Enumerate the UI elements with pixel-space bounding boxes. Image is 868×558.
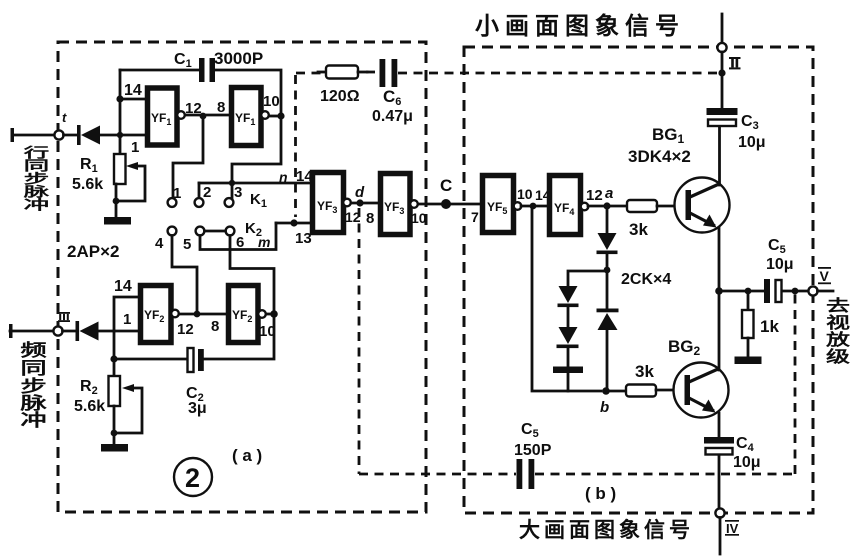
label II bbox=[729, 57, 741, 69]
svg-text:3k: 3k bbox=[635, 362, 654, 381]
BG2 base bar bbox=[685, 375, 691, 405]
wire output run bbox=[719, 290, 764, 293]
label to video amplifier (vertical, right) bbox=[825, 296, 851, 366]
svg-text:IV: IV bbox=[726, 521, 739, 536]
wire node V out bbox=[818, 290, 834, 293]
svg-text:C: C bbox=[440, 176, 452, 195]
resistor R1 body (rheostat) bbox=[114, 154, 126, 184]
dashed box (b) bbox=[464, 47, 813, 513]
C2 feedback wire right bbox=[204, 316, 274, 359]
capacitor C5(150P) plate right bbox=[529, 459, 535, 489]
R2 wiper loop wire bbox=[116, 388, 142, 433]
junction dot pin1 bbox=[117, 132, 123, 138]
wire YF4 out to 3k bbox=[588, 205, 627, 208]
svg-text:4: 4 bbox=[155, 235, 164, 252]
BG2 emitter lead down bbox=[718, 413, 721, 437]
left branch terminal bar bbox=[553, 367, 583, 374]
capacitor C1 plate left bbox=[199, 58, 205, 82]
wire: diode to input junction bbox=[100, 134, 120, 137]
resistor 3k (BG2) body bbox=[626, 385, 656, 397]
wire junction down to D6 bbox=[606, 271, 609, 309]
svg-text:12: 12 bbox=[586, 187, 603, 204]
wire D6 down to node b bbox=[606, 330, 609, 391]
R1 wiper loop wire bbox=[118, 166, 145, 201]
wire pin 1 of YF1a bbox=[120, 134, 147, 137]
capacitor C6 plate right bbox=[392, 59, 398, 87]
R1 bottom junction dot bbox=[113, 198, 120, 205]
wire pin 14 of YF1a bbox=[120, 98, 147, 101]
resistor 3k (BG1) body bbox=[627, 200, 657, 212]
svg-text:3μ: 3μ bbox=[188, 400, 207, 417]
transistor BG2 circle bbox=[674, 363, 729, 418]
BG1 emitter stroke bbox=[690, 213, 715, 226]
gate YF3a output bubble bbox=[343, 199, 351, 207]
gate YF1a body bbox=[148, 88, 178, 145]
junction dot dashed riser bbox=[792, 288, 799, 295]
wire m-node to YF3a pin 13 bbox=[276, 222, 312, 225]
svg-text:a: a bbox=[605, 185, 613, 202]
ground (upper) bbox=[104, 217, 131, 225]
svg-text:10μ: 10μ bbox=[733, 454, 761, 471]
wire YF5 to YF4 bbox=[521, 205, 549, 208]
BG2 collector lead up bbox=[718, 291, 721, 370]
svg-text:2CK×4: 2CK×4 bbox=[621, 271, 671, 288]
gate YF2a body bbox=[141, 286, 172, 343]
wire YF2b out to node bbox=[266, 313, 274, 316]
diode D4 bar bbox=[558, 304, 579, 308]
wire: line-sync input stub bbox=[12, 134, 54, 137]
node t bbox=[54, 130, 63, 139]
svg-text:13: 13 bbox=[295, 230, 312, 247]
wire: node t to diode bbox=[64, 134, 79, 137]
svg-text:14: 14 bbox=[124, 82, 142, 99]
svg-text:K1: K1 bbox=[250, 191, 267, 210]
gate YF3b output bubble bbox=[410, 200, 418, 208]
vertical to R2 bbox=[113, 331, 116, 376]
diode D1 (2AP) triangle bbox=[81, 126, 100, 145]
svg-text:C5: C5 bbox=[768, 237, 786, 256]
junction dot lower pin12 bbox=[194, 311, 201, 318]
contact 5 bbox=[196, 227, 205, 236]
wire C5 to node V bbox=[782, 290, 809, 293]
svg-text:12: 12 bbox=[177, 321, 194, 338]
wire node II down to C3 bbox=[721, 52, 724, 108]
gate YF3b body bbox=[381, 174, 411, 235]
resistor 120ohm lead left bbox=[318, 71, 327, 74]
gate YF4 body bbox=[550, 176, 581, 235]
dashed run to C5 bbox=[359, 473, 516, 476]
input terminal tick bbox=[11, 128, 15, 142]
wire R2 to ground bbox=[113, 406, 116, 445]
gate YF3a body bbox=[313, 173, 344, 233]
BG2 collector stroke bbox=[689, 369, 718, 382]
junction dot pin14 bbox=[116, 95, 123, 102]
svg-text:5.6k: 5.6k bbox=[72, 176, 103, 193]
wire bridge between 5 and 6 bbox=[205, 230, 226, 233]
svg-text:C3: C3 bbox=[741, 113, 759, 132]
svg-text:( a ): ( a ) bbox=[232, 446, 262, 465]
diode D5 bar bbox=[557, 345, 579, 349]
wire pin 1 of YF2a bbox=[114, 330, 140, 333]
label V bbox=[818, 267, 831, 284]
diode D1 (2AP) cathode bar bbox=[77, 125, 81, 145]
svg-text:去: 去 bbox=[826, 296, 850, 315]
svg-text:视: 视 bbox=[826, 314, 851, 332]
label line sync pulse (vertical, upper left) bbox=[22, 145, 50, 213]
dashed link right segment to node II line bbox=[398, 72, 717, 75]
svg-text:10: 10 bbox=[263, 93, 280, 110]
svg-text:d: d bbox=[355, 184, 365, 201]
input terminal tick bbox=[9, 324, 13, 338]
R1 wiper arrow bbox=[126, 162, 138, 170]
resistor 1k body bbox=[742, 310, 754, 338]
diode D6 bar (cathode up) bbox=[597, 309, 619, 313]
capacitor C2 plate left bbox=[188, 348, 194, 372]
dashed drop from node d bbox=[358, 208, 361, 474]
gate YF1b output bubble bbox=[261, 111, 269, 119]
capacitor C3 plate bottom bbox=[708, 120, 736, 127]
BG2 emitter arrowhead bbox=[702, 400, 716, 413]
junction dot emitter/collector bbox=[715, 287, 723, 295]
BG1 collector lead up bbox=[718, 126, 721, 185]
svg-text:3k: 3k bbox=[629, 220, 648, 239]
dashed link mid segment bbox=[366, 71, 377, 74]
wire D3 to junction bbox=[606, 254, 609, 270]
node III bbox=[53, 326, 62, 335]
C2 feedback wire left bbox=[114, 358, 187, 361]
junction dot between YF5 and YF4 bbox=[530, 203, 537, 210]
svg-text:C5: C5 bbox=[521, 421, 539, 440]
gate YF2b output bubble bbox=[258, 310, 266, 318]
dashed branch down from link corner to node 13 bbox=[294, 75, 297, 217]
wire YF3b to node C and YF5 bbox=[418, 203, 482, 206]
wire YF1b output down to contact 3 bbox=[232, 118, 281, 198]
svg-text:级: 级 bbox=[826, 347, 851, 366]
junction dot pin12 bbox=[200, 113, 207, 120]
wire 3k to BG1 base bbox=[657, 205, 676, 208]
figure number circled 2 bbox=[174, 458, 212, 496]
svg-text:同: 同 bbox=[20, 359, 46, 378]
wire bridge U below 5-6 bbox=[200, 223, 276, 250]
BG1 emitter arrowhead bbox=[703, 215, 717, 228]
node IV circle bbox=[715, 508, 724, 517]
wire YF1a out to YF1b bbox=[185, 114, 231, 117]
diode D3 triangle (down) bbox=[598, 233, 617, 250]
contact 3 bbox=[225, 198, 234, 207]
contact 4 bbox=[168, 227, 177, 236]
diode D5 triangle (down) bbox=[559, 327, 578, 344]
diode D4 triangle (down) bbox=[559, 286, 578, 303]
svg-text:BG1: BG1 bbox=[652, 125, 685, 146]
dashed run C5 to riser bbox=[535, 473, 795, 476]
svg-text:1: 1 bbox=[173, 185, 181, 202]
wire YF3a to node d bbox=[351, 202, 380, 205]
wire D5 to terminal bar bbox=[567, 348, 570, 367]
wire terminal bar to b-wire bbox=[567, 373, 570, 391]
svg-text:冲: 冲 bbox=[20, 411, 46, 430]
diode D6 triangle (up) bbox=[598, 313, 618, 330]
ground (1k) bbox=[735, 357, 762, 365]
capacitor C4 plate bottom bbox=[706, 448, 733, 455]
gate YF1a output bubble bbox=[177, 111, 185, 119]
junction dot 1k tap bbox=[745, 288, 752, 295]
node II circle bbox=[717, 43, 726, 52]
svg-text:8: 8 bbox=[217, 99, 225, 116]
wire node b to 3k bbox=[610, 390, 626, 393]
ground (lower) bbox=[101, 444, 128, 452]
svg-text:t: t bbox=[62, 110, 67, 125]
svg-text:V: V bbox=[820, 268, 830, 284]
wire YF2a out to YF2b bbox=[179, 313, 228, 316]
wire 3k to BG2 base bbox=[656, 389, 675, 392]
svg-text:1: 1 bbox=[123, 311, 131, 328]
gate YF2a output bubble bbox=[171, 310, 179, 318]
node V circle bbox=[808, 286, 817, 295]
label III bbox=[58, 312, 70, 322]
junction dot at n-wire crossing bbox=[229, 180, 235, 186]
resistor 1k stem bottom bbox=[747, 338, 750, 357]
wire YF1b out to top corner bbox=[269, 115, 281, 118]
capacitor C2 plate right bbox=[198, 349, 204, 371]
diode D3 bar bbox=[597, 251, 618, 255]
capacitor C5(10u) plate left bbox=[764, 279, 770, 303]
dashed link left segment bbox=[296, 72, 322, 75]
svg-text:2: 2 bbox=[203, 184, 211, 201]
wire: diode to lower input junction bbox=[99, 330, 115, 333]
svg-text:10μ: 10μ bbox=[738, 134, 766, 151]
svg-text:14: 14 bbox=[114, 278, 132, 295]
wire C1 to right corner bbox=[215, 70, 281, 113]
svg-text:1: 1 bbox=[131, 139, 139, 156]
gate YF1b body bbox=[232, 88, 262, 146]
svg-text:小画面图象信号: 小画面图象信号 bbox=[475, 12, 685, 40]
svg-text:8: 8 bbox=[211, 318, 219, 335]
gate YF2b body bbox=[229, 286, 259, 343]
R2 wiper arrow bbox=[122, 384, 134, 392]
junction dot C2 tap bbox=[110, 355, 117, 362]
BG1 base bar bbox=[686, 190, 692, 220]
resistor R2 body (rheostat) bbox=[109, 376, 121, 406]
contact 6 bbox=[226, 227, 235, 236]
svg-text:频: 频 bbox=[20, 341, 46, 360]
contact 1 bbox=[168, 198, 177, 207]
wire contact 4 drop to lower pin12 bbox=[172, 236, 197, 314]
svg-text:b: b bbox=[600, 399, 609, 416]
svg-text:120Ω: 120Ω bbox=[320, 88, 360, 105]
BG1 collector stroke bbox=[690, 184, 719, 197]
junction pin1/pin14 vertical bbox=[119, 70, 122, 154]
svg-text:7: 7 bbox=[471, 209, 479, 225]
R2 bottom junction dot bbox=[111, 430, 118, 437]
svg-text:C1: C1 bbox=[174, 51, 192, 70]
BG1 emitter lead down bbox=[718, 228, 721, 291]
wire top stub above node II bbox=[721, 14, 724, 43]
junction dot node 13 bbox=[290, 219, 297, 226]
svg-text:3: 3 bbox=[234, 184, 242, 201]
gate YF5 output bubble bbox=[514, 202, 522, 210]
wire below node IV bbox=[719, 518, 722, 555]
wire n to YF3a pin 14 bbox=[199, 182, 312, 185]
capacitor C4 plate top bbox=[704, 437, 734, 444]
top feedback wire with C1 bbox=[120, 69, 198, 72]
svg-text:大画面图象信号: 大画面图象信号 bbox=[519, 518, 694, 542]
svg-text:5.6k: 5.6k bbox=[74, 398, 105, 415]
svg-text:BG2: BG2 bbox=[668, 337, 701, 358]
svg-text:C4: C4 bbox=[736, 435, 755, 454]
junction dot lower output bbox=[270, 310, 278, 318]
wire C4 down to node IV bbox=[718, 455, 721, 509]
diode D2 (2AP) triangle bbox=[80, 322, 99, 341]
junction dot on II line bbox=[718, 69, 725, 76]
svg-text:5: 5 bbox=[183, 236, 191, 253]
svg-text:12: 12 bbox=[185, 100, 202, 117]
transistor BG1 circle bbox=[675, 178, 730, 233]
lower pin14 loop wire bbox=[114, 297, 140, 331]
dashed box (a) bbox=[58, 42, 426, 512]
svg-text:10: 10 bbox=[517, 186, 533, 202]
gate YF5 body bbox=[483, 176, 514, 233]
svg-text:放: 放 bbox=[825, 330, 851, 349]
svg-text:10μ: 10μ bbox=[766, 256, 794, 273]
wire node a down bbox=[606, 209, 609, 233]
svg-text:10: 10 bbox=[411, 210, 427, 226]
wire pin12 down to contact 1 bbox=[173, 118, 203, 196]
svg-text:8: 8 bbox=[366, 210, 374, 227]
capacitor C3 plate top bbox=[707, 108, 738, 115]
gate YF4 output bubble bbox=[581, 203, 589, 211]
svg-text:0.47μ: 0.47μ bbox=[372, 108, 413, 125]
capacitor C5(150P) plate left bbox=[517, 459, 523, 489]
svg-text:3DK4×2: 3DK4×2 bbox=[628, 147, 691, 166]
capacitor C5(10u) plate right bbox=[776, 280, 782, 302]
svg-text:冲: 冲 bbox=[24, 198, 50, 213]
node b dot bbox=[602, 387, 610, 395]
wire R1 to ground bbox=[115, 184, 118, 218]
wire: node III to diode bbox=[63, 330, 77, 333]
wire YF5/YF4 junction down to node b bbox=[532, 206, 601, 391]
BG2 emitter stroke bbox=[689, 398, 714, 411]
dashed riser to output node bbox=[794, 294, 797, 474]
resistor 120ohm lead right bbox=[358, 71, 367, 74]
junction dot diode net bbox=[604, 267, 611, 274]
svg-text:n: n bbox=[279, 169, 288, 185]
resistor 120ohm body bbox=[326, 66, 358, 79]
svg-text:( b ): ( b ) bbox=[585, 484, 616, 503]
svg-text:R2: R2 bbox=[80, 378, 98, 397]
svg-text:1k: 1k bbox=[760, 317, 779, 336]
wire: field-sync input stub bbox=[10, 330, 53, 333]
node C dot bbox=[441, 199, 451, 209]
node a dot bbox=[603, 202, 610, 209]
svg-text:R1: R1 bbox=[80, 156, 98, 175]
svg-text:150P: 150P bbox=[514, 442, 552, 459]
svg-text:2AP×2: 2AP×2 bbox=[67, 242, 119, 261]
node d dot bbox=[356, 199, 363, 206]
junction dot YF1b output bbox=[277, 112, 284, 119]
wire contact2 riser bbox=[198, 183, 201, 196]
capacitor C6 plate left bbox=[380, 59, 386, 87]
svg-text:m: m bbox=[258, 234, 270, 250]
wire contact 6 drop bbox=[230, 236, 274, 315]
svg-text:3000P: 3000P bbox=[214, 49, 263, 68]
capacitor C1 plate right bbox=[210, 58, 216, 82]
label field sync pulse (vertical, lower left) bbox=[19, 341, 48, 430]
contact 2 bbox=[195, 198, 204, 207]
diode D2 (2AP) cathode bar bbox=[76, 321, 80, 341]
svg-text:C6: C6 bbox=[383, 87, 401, 108]
svg-text:2: 2 bbox=[185, 463, 200, 493]
label IV bbox=[725, 520, 739, 536]
wire junction to left branch bbox=[568, 271, 607, 286]
resistor 1k stem top bbox=[747, 291, 750, 310]
wire D4 to D5 bbox=[567, 307, 570, 327]
